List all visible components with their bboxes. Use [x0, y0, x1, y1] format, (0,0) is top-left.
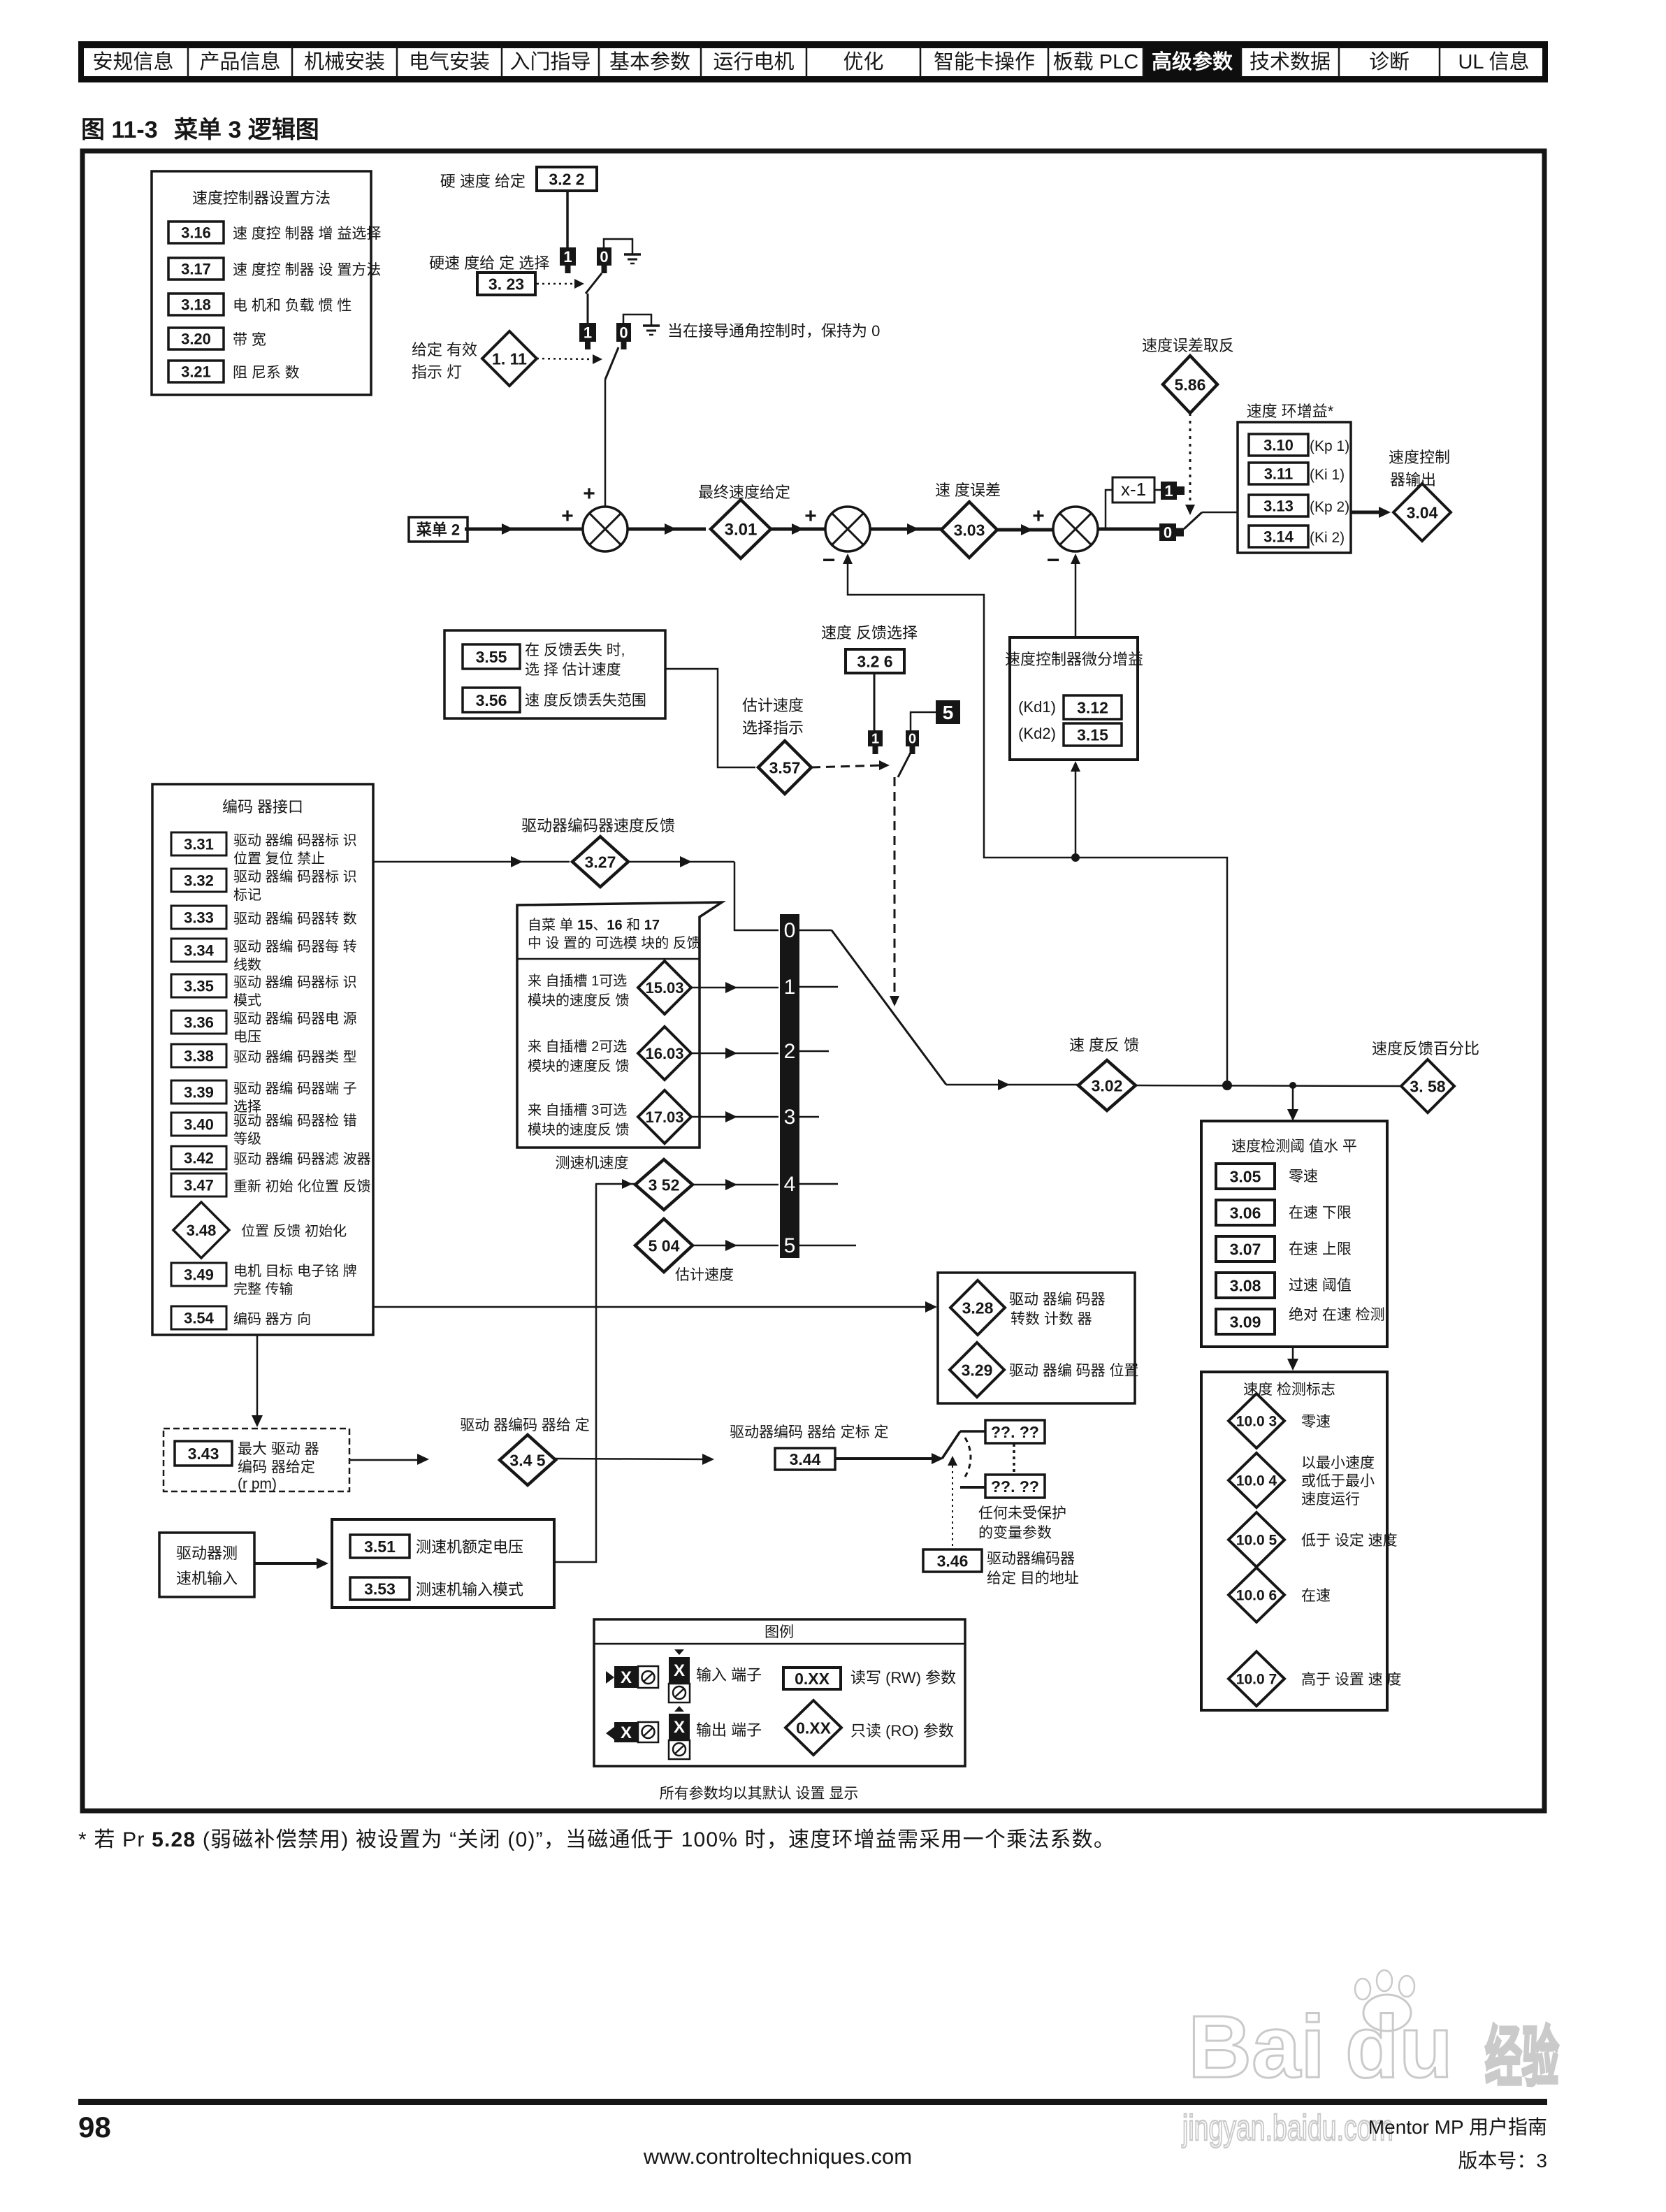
svg-text:硬速 度给 定 选择: 硬速 度给 定 选择: [429, 254, 549, 272]
svg-text:3.13: 3.13: [1263, 497, 1294, 514]
svg-text:3.48: 3.48: [187, 1222, 217, 1239]
svg-text:技术数据: 技术数据: [1249, 50, 1331, 73]
svg-text:3.36: 3.36: [184, 1013, 214, 1031]
svg-text:(Kp 1): (Kp 1): [1310, 438, 1349, 454]
svg-text:带 宽: 带 宽: [233, 332, 266, 348]
svg-text:3.2 2: 3.2 2: [549, 170, 584, 188]
svg-text:3.33: 3.33: [184, 909, 214, 926]
svg-text:3.21: 3.21: [181, 363, 211, 380]
svg-text:10.0 3: 10.0 3: [1236, 1414, 1277, 1430]
svg-text:线数: 线数: [233, 957, 261, 973]
svg-text:驱动 器编 码器标 识: 驱动 器编 码器标 识: [233, 869, 357, 885]
svg-text:0: 0: [784, 919, 796, 942]
svg-text:器输出: 器输出: [1390, 471, 1436, 489]
svg-text:2: 2: [784, 1040, 796, 1063]
svg-text:速度 环增益*: 速度 环增益*: [1247, 403, 1334, 420]
svg-text:驱动 器编 码器滤 波器: 驱动 器编 码器滤 波器: [233, 1151, 371, 1167]
svg-text:(Kd2): (Kd2): [1018, 725, 1056, 742]
svg-text:驱动器编码器: 驱动器编码器: [987, 1551, 1075, 1567]
svg-text:3.06: 3.06: [1230, 1203, 1261, 1222]
svg-text:(Ki 1): (Ki 1): [1310, 467, 1345, 483]
svg-text:0: 0: [908, 732, 916, 747]
svg-text:−: −: [823, 547, 836, 572]
svg-text:X: X: [621, 1723, 632, 1742]
svg-text:(r pm): (r pm): [238, 1476, 277, 1492]
svg-text:??. ??: ??. ??: [991, 1423, 1039, 1441]
svg-text:3.57: 3.57: [769, 758, 801, 776]
svg-text:驱动器编码器速度反馈: 驱动器编码器速度反馈: [521, 817, 675, 834]
svg-text:给定 有效: 给定 有效: [412, 341, 477, 359]
svg-text:5: 5: [784, 1234, 796, 1257]
svg-text:所有参数均以其默认 设置 显示: 所有参数均以其默认 设置 显示: [660, 1786, 859, 1802]
svg-text:3. 58: 3. 58: [1410, 1077, 1445, 1095]
svg-text:* 若 Pr 5.28 (弱磁补偿禁用) 被设置为 “关闭: * 若 Pr 5.28 (弱磁补偿禁用) 被设置为 “关闭 (0)”，当磁通低于…: [78, 1828, 1115, 1851]
svg-text:经验: 经验: [1485, 2021, 1559, 2095]
svg-text:估计速度: 估计速度: [675, 1267, 734, 1283]
svg-text:3.47: 3.47: [184, 1176, 214, 1194]
svg-text:优化: 优化: [843, 50, 883, 73]
svg-text:来 自插槽 3可选: 来 自插槽 3可选: [528, 1102, 627, 1118]
svg-text:低于 设定 速度: 低于 设定 速度: [1301, 1533, 1398, 1549]
svg-text:1. 11: 1. 11: [492, 349, 527, 368]
svg-text:3.04: 3.04: [1407, 503, 1438, 521]
svg-text:3.44: 3.44: [790, 1450, 821, 1468]
svg-text:+: +: [561, 505, 574, 528]
svg-text:3.49: 3.49: [184, 1266, 214, 1283]
svg-text:X: X: [674, 1718, 685, 1737]
svg-text:完整 传输: 完整 传输: [233, 1281, 294, 1297]
svg-text:估计速度: 估计速度: [742, 697, 804, 714]
svg-text:3.10: 3.10: [1263, 436, 1294, 454]
svg-text:3 52: 3 52: [649, 1176, 680, 1194]
svg-text:诊断: 诊断: [1369, 50, 1410, 73]
svg-text:模式: 模式: [233, 992, 261, 1009]
svg-text:在速 上限: 在速 上限: [1289, 1241, 1352, 1257]
svg-text:位置 复位 禁止: 位置 复位 禁止: [233, 851, 325, 867]
svg-text:速 度误差: 速 度误差: [935, 482, 1001, 499]
svg-text:输入 端子: 输入 端子: [696, 1666, 762, 1684]
svg-text:驱动器测: 驱动器测: [176, 1545, 238, 1562]
svg-text:3.39: 3.39: [184, 1083, 214, 1101]
svg-text:x-1: x-1: [1121, 479, 1146, 500]
svg-text:3.31: 3.31: [184, 835, 214, 853]
svg-text:5 04: 5 04: [649, 1236, 680, 1255]
svg-text:+: +: [583, 482, 595, 505]
svg-text:0.XX: 0.XX: [795, 1670, 830, 1688]
svg-text:du: du: [1345, 1997, 1453, 2096]
svg-text:3.07: 3.07: [1230, 1240, 1261, 1258]
svg-text:在 反馈丢失 时,: 在 反馈丢失 时,: [525, 642, 625, 658]
svg-text:驱动 器编 码器电 源: 驱动 器编 码器电 源: [233, 1011, 357, 1027]
svg-text:标记: 标记: [233, 887, 261, 903]
svg-text:Bai: Bai: [1188, 1997, 1325, 2096]
svg-text:X: X: [674, 1661, 685, 1680]
svg-text:机械安装: 机械安装: [304, 50, 385, 73]
svg-text:速度控制: 速度控制: [1389, 449, 1450, 466]
svg-text:驱动 器编 码器 位置: 驱动 器编 码器 位置: [1009, 1363, 1139, 1379]
svg-text:以最小速度: 以最小速度: [1301, 1455, 1375, 1471]
svg-text:0: 0: [600, 248, 608, 266]
svg-text:电气安装: 电气安装: [409, 50, 490, 73]
svg-text:5: 5: [943, 702, 954, 723]
svg-text:高级参数: 高级参数: [1152, 50, 1233, 73]
svg-text:jingyan.baidu.com: jingyan.baidu.com: [1181, 2107, 1393, 2148]
svg-text:选 择 估计速度: 选 择 估计速度: [525, 662, 621, 678]
svg-text:位置 反馈 初始化: 位置 反馈 初始化: [241, 1223, 347, 1239]
svg-text:3.35: 3.35: [184, 977, 214, 995]
svg-text:3.18: 3.18: [181, 296, 211, 313]
svg-text:3.02: 3.02: [1092, 1076, 1123, 1094]
svg-text:3.29: 3.29: [962, 1361, 993, 1379]
svg-text:3.09: 3.09: [1230, 1313, 1261, 1331]
svg-text:3.17: 3.17: [181, 260, 211, 277]
svg-text:转数 计数 器: 转数 计数 器: [1011, 1311, 1092, 1327]
svg-text:速度运行: 速度运行: [1301, 1491, 1360, 1508]
svg-text:速 度控 制器 增 益选择: 速 度控 制器 增 益选择: [233, 226, 381, 242]
svg-text:3.05: 3.05: [1230, 1167, 1261, 1185]
svg-text:自菜 单 15、16 和 17: 自菜 单 15、16 和 17: [528, 917, 660, 933]
svg-text:模块的速度反 馈: 模块的速度反 馈: [528, 992, 630, 1009]
svg-text:+: +: [1032, 505, 1045, 528]
svg-text:驱动 器编 码器检 错: 驱动 器编 码器检 错: [233, 1113, 357, 1129]
svg-text:来 自插槽 2可选: 来 自插槽 2可选: [528, 1039, 627, 1055]
svg-text:3.46: 3.46: [937, 1552, 969, 1570]
svg-text:速度控制器设置方法: 速度控制器设置方法: [192, 189, 331, 207]
svg-text:测速机速度: 测速机速度: [556, 1155, 629, 1171]
svg-text:安规信息: 安规信息: [92, 50, 173, 73]
svg-text:3.16: 3.16: [181, 224, 211, 241]
svg-text:模块的速度反 馈: 模块的速度反 馈: [528, 1058, 630, 1074]
svg-text:1: 1: [584, 324, 592, 341]
svg-text:来 自插槽 1可选: 来 自插槽 1可选: [528, 973, 627, 989]
svg-text:(Kp 2): (Kp 2): [1310, 499, 1349, 515]
svg-text:重新 初始 化位置 反馈: 重新 初始 化位置 反馈: [233, 1178, 371, 1194]
svg-text:选择: 选择: [233, 1099, 261, 1115]
svg-text:驱动器编码 器给 定标 定: 驱动器编码 器给 定标 定: [730, 1424, 889, 1440]
svg-text:3.03: 3.03: [954, 521, 985, 539]
svg-text:最终速度给定: 最终速度给定: [698, 484, 790, 501]
svg-text:3.40: 3.40: [184, 1115, 214, 1133]
svg-text:产品信息: 产品信息: [199, 50, 280, 73]
svg-text:3.14: 3.14: [1263, 528, 1294, 545]
svg-text:高于 设置 速 度: 高于 设置 速 度: [1301, 1672, 1402, 1688]
svg-text:3.53: 3.53: [364, 1580, 396, 1598]
svg-text:1: 1: [784, 976, 796, 999]
svg-text:0.XX: 0.XX: [796, 1719, 832, 1737]
svg-text:3.56: 3.56: [476, 691, 507, 709]
svg-text:电机 目标 电子铭 牌: 电机 目标 电子铭 牌: [233, 1263, 357, 1279]
svg-text:5.86: 5.86: [1175, 375, 1206, 393]
svg-text:速机输入: 速机输入: [176, 1570, 238, 1587]
svg-text:0: 0: [1164, 523, 1172, 541]
svg-text:输出 端子: 输出 端子: [696, 1721, 762, 1739]
svg-text:3.42: 3.42: [184, 1149, 214, 1166]
svg-text:电压: 电压: [233, 1029, 261, 1045]
svg-text:??. ??: ??. ??: [991, 1477, 1039, 1496]
svg-text:速度反馈百分比: 速度反馈百分比: [1372, 1040, 1479, 1057]
svg-text:选择指示: 选择指示: [742, 719, 804, 737]
svg-text:基本参数: 基本参数: [609, 50, 690, 73]
svg-text:电 机和 负载 惯 性: 电 机和 负载 惯 性: [233, 298, 352, 314]
svg-text:10.0 6: 10.0 6: [1236, 1588, 1277, 1604]
svg-text:UL 信息: UL 信息: [1458, 50, 1529, 73]
svg-text:X: X: [621, 1668, 632, 1687]
svg-text:www.controltechniques.com: www.controltechniques.com: [643, 2144, 912, 2169]
svg-text:驱动 器编 码器: 驱动 器编 码器: [1009, 1292, 1106, 1308]
svg-text:图例: 图例: [765, 1624, 794, 1640]
svg-text:1: 1: [1164, 482, 1173, 500]
svg-text:或低于最小: 或低于最小: [1301, 1473, 1375, 1489]
svg-text:+: +: [804, 505, 817, 528]
svg-text:中 设 置的 可选模 块的 反馈: 中 设 置的 可选模 块的 反馈: [528, 935, 701, 951]
svg-text:驱动 器编 码器每 转: 驱动 器编 码器每 转: [233, 939, 357, 955]
svg-text:的变量参数: 的变量参数: [978, 1525, 1052, 1541]
svg-text:零速: 零速: [1289, 1169, 1318, 1185]
svg-text:3.55: 3.55: [476, 648, 507, 666]
svg-text:模块的速度反 馈: 模块的速度反 馈: [528, 1122, 630, 1138]
svg-text:驱动 器编 码器标 识: 驱动 器编 码器标 识: [233, 832, 357, 848]
svg-text:驱动 器编 码器转 数: 驱动 器编 码器转 数: [233, 911, 357, 927]
svg-text:速度控制器微分增益: 速度控制器微分增益: [1005, 651, 1143, 668]
svg-text:只读 (RO) 参数: 只读 (RO) 参数: [850, 1722, 954, 1740]
svg-text:速度误差取反: 速度误差取反: [1142, 337, 1234, 354]
svg-text:速 度反馈丢失范围: 速 度反馈丢失范围: [525, 693, 646, 709]
svg-text:运行电机: 运行电机: [713, 50, 794, 73]
svg-text:驱动 器编码 器给 定: 驱动 器编码 器给 定: [460, 1417, 590, 1433]
svg-text:在速 下限: 在速 下限: [1289, 1205, 1352, 1221]
svg-text:(Ki 2): (Ki 2): [1310, 530, 1345, 546]
svg-text:给定 目的地址: 给定 目的地址: [987, 1570, 1079, 1586]
svg-text:3.2 6: 3.2 6: [857, 652, 892, 670]
svg-text:版本号：3: 版本号：3: [1458, 2150, 1547, 2171]
svg-text:驱动 器编 码器类 型: 驱动 器编 码器类 型: [233, 1049, 357, 1065]
svg-text:1: 1: [871, 732, 879, 747]
svg-text:3.15: 3.15: [1077, 725, 1108, 744]
svg-text:过速 阈值: 过速 阈值: [1289, 1278, 1352, 1294]
svg-text:编码 器方 向: 编码 器方 向: [233, 1311, 311, 1327]
svg-text:3.11: 3.11: [1264, 465, 1294, 482]
svg-text:速 度反 馈: 速 度反 馈: [1069, 1036, 1139, 1054]
svg-text:编码 器给定: 编码 器给定: [238, 1459, 315, 1475]
svg-text:3.27: 3.27: [585, 853, 616, 871]
svg-text:板载 PLC: 板载 PLC: [1053, 50, 1138, 73]
svg-text:0: 0: [619, 324, 628, 341]
svg-text:速 度控 制器 设 置方法: 速 度控 制器 设 置方法: [233, 262, 381, 278]
svg-text:3.08: 3.08: [1230, 1276, 1261, 1294]
svg-text:10.0 7: 10.0 7: [1236, 1672, 1277, 1688]
svg-text:菜单 3 逻辑图: 菜单 3 逻辑图: [174, 117, 319, 143]
svg-text:17.03: 17.03: [645, 1108, 683, 1126]
svg-text:15.03: 15.03: [645, 979, 683, 997]
svg-text:3.20: 3.20: [181, 330, 211, 347]
svg-text:读写 (RW) 参数: 读写 (RW) 参数: [850, 1669, 956, 1686]
svg-text:4: 4: [784, 1173, 796, 1196]
svg-text:任何未受保护: 任何未受保护: [978, 1505, 1066, 1521]
svg-text:3.4 5: 3.4 5: [509, 1451, 545, 1469]
svg-text:阻 尼系 数: 阻 尼系 数: [233, 365, 300, 381]
svg-text:当在接导通角控制时，保持为 0: 当在接导通角控制时，保持为 0: [667, 322, 880, 340]
svg-text:硬 速度 给定: 硬 速度 给定: [440, 173, 526, 190]
svg-text:−: −: [1047, 547, 1060, 572]
svg-text:3.38: 3.38: [184, 1047, 214, 1064]
svg-text:3.28: 3.28: [962, 1299, 994, 1317]
svg-text:3.32: 3.32: [184, 872, 214, 889]
svg-text:编码 器接口: 编码 器接口: [222, 798, 303, 816]
svg-text:菜单 2: 菜单 2: [416, 521, 460, 538]
svg-text:入门指导: 入门指导: [509, 50, 591, 73]
svg-text:3. 23: 3. 23: [488, 275, 524, 293]
svg-text:3.34: 3.34: [184, 941, 215, 959]
svg-text:测速机额定电压: 测速机额定电压: [416, 1538, 523, 1556]
svg-text:绝对 在速 检测: 绝对 在速 检测: [1289, 1307, 1385, 1323]
svg-text:驱动 器编 码器端 子: 驱动 器编 码器端 子: [233, 1080, 357, 1097]
svg-text:速度检测阈 值水 平: 速度检测阈 值水 平: [1231, 1138, 1357, 1155]
svg-text:驱动 器编 码器标 识: 驱动 器编 码器标 识: [233, 974, 357, 990]
svg-text:3.12: 3.12: [1077, 698, 1108, 716]
svg-text:测速机输入模式: 测速机输入模式: [416, 1581, 523, 1598]
svg-text:10.0 4: 10.0 4: [1236, 1473, 1277, 1489]
svg-text:速度 反馈选择: 速度 反馈选择: [821, 624, 918, 642]
svg-text:在速: 在速: [1301, 1588, 1331, 1604]
svg-text:3: 3: [784, 1106, 796, 1129]
svg-text:3.43: 3.43: [188, 1445, 219, 1463]
svg-text:1: 1: [563, 248, 572, 266]
svg-text:16.03: 16.03: [645, 1045, 683, 1062]
svg-text:Mentor MP 用户指南: Mentor MP 用户指南: [1368, 2116, 1547, 2138]
svg-text:3.01: 3.01: [725, 521, 758, 540]
svg-text:10.0 5: 10.0 5: [1236, 1533, 1277, 1549]
svg-text:零速: 零速: [1301, 1414, 1331, 1430]
svg-text:最大 驱动 器: 最大 驱动 器: [238, 1441, 319, 1457]
svg-text:(Kd1): (Kd1): [1018, 698, 1056, 716]
svg-text:3.54: 3.54: [184, 1309, 215, 1327]
svg-text:指示 灯: 指示 灯: [412, 363, 462, 381]
svg-text:3.51: 3.51: [364, 1538, 396, 1556]
svg-text:等级: 等级: [233, 1131, 261, 1147]
svg-text:98: 98: [78, 2111, 111, 2144]
svg-text:图 11-3: 图 11-3: [81, 117, 158, 143]
svg-text:智能卡操作: 智能卡操作: [934, 50, 1035, 73]
